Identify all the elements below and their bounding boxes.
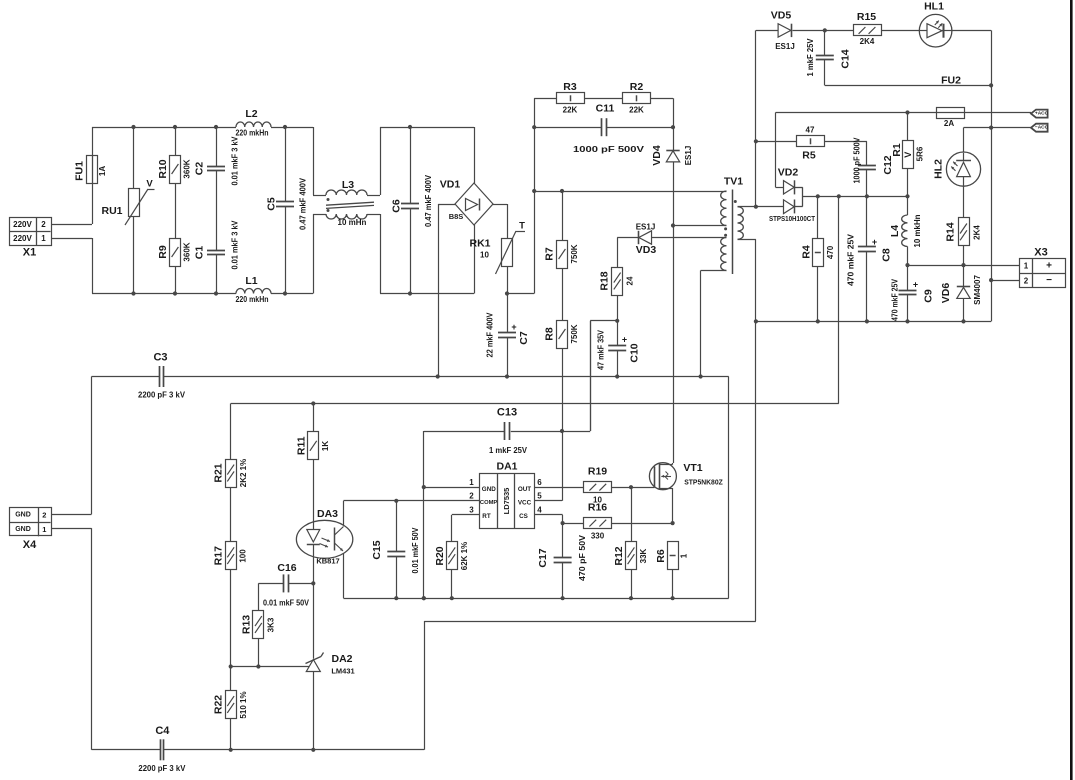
svg-text:RK1: RK1 bbox=[469, 238, 490, 250]
svg-text:R10: R10 bbox=[157, 159, 169, 178]
svg-text:L1: L1 bbox=[245, 275, 257, 287]
svg-text:VD6: VD6 bbox=[940, 283, 952, 304]
svg-text:3: 3 bbox=[469, 505, 474, 514]
svg-text:1 mkF 25V: 1 mkF 25V bbox=[806, 38, 815, 77]
svg-text:470 pF 50V: 470 pF 50V bbox=[578, 534, 587, 581]
svg-text:+: + bbox=[913, 280, 918, 290]
svg-text:220V: 220V bbox=[13, 220, 32, 229]
svg-text:C17: C17 bbox=[537, 548, 549, 567]
svg-text:2: 2 bbox=[469, 492, 474, 501]
svg-text:2K4: 2K4 bbox=[860, 37, 875, 46]
svg-text:1: 1 bbox=[469, 478, 474, 487]
svg-text:0.47 mkF 400V: 0.47 mkF 400V bbox=[299, 177, 308, 230]
svg-text:R4: R4 bbox=[801, 245, 813, 259]
svg-text:C13: C13 bbox=[497, 407, 517, 419]
svg-text:C16: C16 bbox=[277, 562, 296, 574]
svg-text:OUT: OUT bbox=[518, 486, 531, 493]
svg-text:220 mkHn: 220 mkHn bbox=[236, 295, 269, 304]
svg-text:R15: R15 bbox=[857, 11, 876, 23]
svg-text:2: 2 bbox=[42, 511, 46, 520]
svg-text:GND: GND bbox=[482, 486, 496, 493]
svg-text:C8: C8 bbox=[881, 248, 893, 262]
svg-text:ES1J: ES1J bbox=[775, 42, 795, 51]
svg-text:33K: 33K bbox=[639, 548, 648, 563]
svg-text:LD7535: LD7535 bbox=[502, 488, 511, 515]
svg-text:HL2: HL2 bbox=[933, 159, 945, 179]
svg-text:DA2: DA2 bbox=[331, 653, 352, 665]
svg-text:C9: C9 bbox=[923, 289, 935, 303]
svg-text:22K: 22K bbox=[629, 106, 644, 115]
svg-text:ES1J: ES1J bbox=[636, 223, 656, 232]
svg-text:C2: C2 bbox=[194, 162, 206, 176]
svg-text:R12: R12 bbox=[613, 546, 625, 565]
svg-text:R14: R14 bbox=[945, 222, 957, 241]
svg-text:0.01 mkF 3 kV: 0.01 mkF 3 kV bbox=[231, 136, 240, 186]
svg-text:22 mkF 400V: 22 mkF 400V bbox=[486, 312, 495, 358]
svg-text:22K: 22K bbox=[563, 106, 578, 115]
svg-text:750K: 750K bbox=[570, 324, 579, 343]
svg-text:L2: L2 bbox=[245, 108, 257, 120]
svg-text:R6: R6 bbox=[655, 549, 667, 563]
svg-text:TV1: TV1 bbox=[724, 176, 743, 188]
svg-text:LM431: LM431 bbox=[331, 666, 354, 675]
svg-text:−: − bbox=[1046, 275, 1052, 286]
svg-text:100: 100 bbox=[239, 549, 248, 563]
svg-text:STP5NK80Z: STP5NK80Z bbox=[684, 477, 723, 486]
svg-text:C12: C12 bbox=[882, 155, 894, 174]
svg-text:+: + bbox=[622, 335, 627, 345]
svg-text:+: + bbox=[511, 322, 516, 332]
svg-text:24: 24 bbox=[626, 276, 635, 285]
svg-text:VD1: VD1 bbox=[440, 179, 461, 191]
svg-text:C15: C15 bbox=[371, 540, 383, 559]
svg-text:GND: GND bbox=[15, 526, 31, 533]
svg-text:T: T bbox=[519, 221, 525, 232]
svg-text:1000 pF 500V: 1000 pF 500V bbox=[853, 137, 862, 184]
svg-text:0.01 mkF 50V: 0.01 mkF 50V bbox=[411, 527, 420, 574]
svg-text:4: 4 bbox=[537, 505, 542, 514]
svg-text:X1: X1 bbox=[23, 247, 36, 259]
svg-text:47: 47 bbox=[806, 126, 815, 135]
svg-text:1A: 1A bbox=[98, 166, 107, 176]
svg-text:R20: R20 bbox=[434, 546, 446, 565]
svg-text:R17: R17 bbox=[213, 546, 225, 565]
svg-text:2K2 1%: 2K2 1% bbox=[239, 459, 248, 487]
svg-text:HL1: HL1 bbox=[924, 1, 944, 13]
svg-text:470 mkF 25V: 470 mkF 25V bbox=[891, 278, 900, 321]
svg-text:C5: C5 bbox=[266, 197, 278, 211]
svg-text:SM4007: SM4007 bbox=[973, 275, 982, 305]
svg-text:R8: R8 bbox=[544, 327, 556, 341]
svg-text:CS: CS bbox=[519, 513, 528, 520]
svg-text:2200 pF 3 kV: 2200 pF 3 kV bbox=[138, 764, 186, 773]
svg-text:R13: R13 bbox=[241, 615, 253, 634]
svg-text:2A: 2A bbox=[944, 119, 954, 128]
svg-text:C14: C14 bbox=[840, 49, 852, 68]
svg-text:C10: C10 bbox=[629, 343, 641, 362]
svg-text:330: 330 bbox=[591, 532, 605, 541]
svg-text:C1: C1 bbox=[194, 246, 206, 260]
svg-text:1000 pF 500V: 1000 pF 500V bbox=[573, 145, 645, 154]
svg-text:R16: R16 bbox=[588, 502, 607, 514]
svg-text:VD2: VD2 bbox=[778, 167, 799, 179]
svg-text:VD3: VD3 bbox=[636, 244, 657, 256]
svg-text:R1: R1 bbox=[891, 143, 903, 157]
svg-text:+: + bbox=[872, 237, 877, 247]
svg-text:+: + bbox=[1046, 260, 1052, 271]
svg-text:6: 6 bbox=[537, 478, 542, 487]
svg-text:C3: C3 bbox=[153, 351, 167, 363]
svg-text:GND: GND bbox=[15, 512, 31, 519]
svg-text:R21: R21 bbox=[213, 463, 225, 482]
svg-text:510 1%: 510 1% bbox=[239, 691, 248, 718]
svg-text:R2: R2 bbox=[630, 81, 644, 93]
svg-text:5: 5 bbox=[537, 492, 542, 501]
svg-text:ES1J: ES1J bbox=[684, 146, 693, 166]
svg-text:X4: X4 bbox=[23, 539, 37, 551]
svg-text:1: 1 bbox=[1024, 261, 1029, 270]
svg-text:STPS10H100CT: STPS10H100CT bbox=[769, 214, 815, 223]
svg-text:10 mHn: 10 mHn bbox=[338, 218, 367, 227]
svg-text:0.47 mkF 400V: 0.47 mkF 400V bbox=[424, 174, 433, 227]
svg-text:0.01 mkF 3 kV: 0.01 mkF 3 kV bbox=[231, 220, 240, 270]
svg-text:5R6: 5R6 bbox=[916, 146, 925, 161]
svg-text:220V: 220V bbox=[13, 234, 32, 243]
svg-text:R19: R19 bbox=[588, 466, 607, 478]
svg-text:2: 2 bbox=[1024, 276, 1029, 285]
svg-text:360K: 360K bbox=[183, 242, 192, 261]
svg-text:R3: R3 bbox=[563, 81, 577, 93]
svg-text:470: 470 bbox=[826, 245, 835, 259]
svg-text:10: 10 bbox=[480, 251, 489, 260]
svg-text:1: 1 bbox=[680, 553, 689, 558]
svg-text:R5: R5 bbox=[802, 150, 816, 162]
svg-text:R11: R11 bbox=[296, 436, 308, 455]
svg-text:R22: R22 bbox=[213, 695, 225, 714]
svg-text:VCC: VCC bbox=[518, 500, 532, 507]
svg-text:V: V bbox=[146, 179, 153, 190]
svg-text:L4: L4 bbox=[889, 225, 901, 237]
svg-text:C6: C6 bbox=[391, 199, 403, 213]
svg-text:+ACC: +ACC bbox=[1035, 110, 1049, 116]
svg-text:C7: C7 bbox=[518, 331, 530, 345]
svg-text:RT: RT bbox=[482, 513, 491, 520]
svg-text:2K4: 2K4 bbox=[973, 225, 982, 240]
svg-text:VT1: VT1 bbox=[683, 462, 702, 474]
svg-text:R7: R7 bbox=[544, 247, 556, 261]
svg-text:10 mkHn: 10 mkHn bbox=[913, 214, 922, 247]
svg-text:L3: L3 bbox=[342, 179, 354, 191]
svg-text:R9: R9 bbox=[157, 245, 169, 259]
svg-text:FU2: FU2 bbox=[941, 75, 961, 87]
svg-text:DA1: DA1 bbox=[496, 461, 517, 473]
svg-text:470 mkF 25V: 470 mkF 25V bbox=[847, 233, 856, 286]
svg-text:KB817: KB817 bbox=[316, 556, 339, 565]
svg-text:360K: 360K bbox=[183, 159, 192, 178]
svg-text:VD5: VD5 bbox=[771, 10, 792, 22]
svg-text:1: 1 bbox=[41, 234, 46, 243]
svg-text:VD4: VD4 bbox=[651, 145, 663, 166]
svg-text:DA3: DA3 bbox=[317, 508, 338, 520]
svg-text:0.01 mkF 50V: 0.01 mkF 50V bbox=[263, 599, 310, 608]
svg-text:C4: C4 bbox=[155, 725, 170, 737]
svg-text:FU1: FU1 bbox=[74, 161, 86, 181]
svg-text:2200 pF 3 kV: 2200 pF 3 kV bbox=[138, 391, 186, 400]
svg-text:1K: 1K bbox=[321, 441, 330, 451]
svg-text:2: 2 bbox=[41, 220, 46, 229]
svg-text:62K 1%: 62K 1% bbox=[460, 542, 469, 570]
svg-text:220 mkHn: 220 mkHn bbox=[236, 129, 269, 138]
svg-text:X3: X3 bbox=[1034, 247, 1047, 259]
svg-text:1 mkF 25V: 1 mkF 25V bbox=[489, 446, 528, 455]
svg-text:−ACC: −ACC bbox=[1035, 125, 1049, 131]
svg-text:RU1: RU1 bbox=[101, 205, 122, 217]
svg-text:R18: R18 bbox=[599, 271, 611, 290]
svg-text:COMP: COMP bbox=[480, 500, 498, 506]
svg-text:1: 1 bbox=[42, 525, 46, 534]
svg-text:B8S: B8S bbox=[449, 212, 464, 221]
svg-text:3K3: 3K3 bbox=[267, 617, 276, 632]
svg-text:750K: 750K bbox=[570, 244, 579, 263]
svg-text:C11: C11 bbox=[596, 103, 615, 115]
svg-text:47 mkF 35V: 47 mkF 35V bbox=[597, 329, 606, 370]
svg-text:V: V bbox=[903, 152, 913, 158]
